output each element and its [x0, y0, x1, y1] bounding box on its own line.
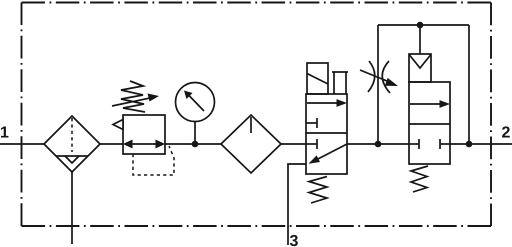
gauge G1 needle [189, 96, 204, 112]
valve V2 body (2/2-way pilot valve) [409, 82, 450, 164]
regulator R1 flow path double arrow [130, 143, 158, 145]
throttle valve D1 arcs [368, 61, 375, 92]
filter F1 drain line [71, 172, 73, 244]
filter F1 separator notch [65, 156, 79, 163]
regulator R1 relief vent triangle [113, 120, 123, 130]
wire lubricator to valve V1 [281, 143, 306, 145]
regulator R1 body [123, 115, 165, 154]
wire bypass top line [378, 24, 469, 26]
filter F1 separator baffle [57, 155, 88, 157]
valve V1 bottom box exhaust path diagonal arrow [314, 144, 347, 161]
valve V1 solenoid coil [307, 63, 328, 94]
port label 1 [1, 126, 8, 137]
lubricator L1 body [221, 115, 281, 173]
regulator R1 pilot line (dashed) [133, 146, 174, 175]
filter F1 (water separator) body [44, 116, 100, 172]
valve V1 body (3/2-way solenoid valve) [306, 94, 347, 174]
node output junction [466, 141, 473, 148]
valve V1 exhaust wire to port 3 [288, 164, 306, 245]
wire pilot stem [419, 25, 421, 54]
wire bypass riser (left) [377, 25, 379, 144]
wire filter to regulator [100, 143, 123, 145]
port label 3 [290, 235, 298, 246]
pressure gauge G1 [176, 83, 215, 122]
node pilot tap junction [417, 22, 424, 29]
filter F1 element (dashed) [71, 118, 73, 152]
regulator R1 spring [121, 81, 145, 112]
regulator R1 adjustment arrow [112, 98, 152, 106]
valve V2 bottom box blocked port T (right) [440, 143, 450, 145]
wire valve V2 to port 2 [450, 143, 512, 145]
lubricator L1 drip tube [250, 117, 252, 133]
wire regulator to lubricator [165, 143, 221, 145]
valve V1 position divider [306, 132, 347, 134]
valve V2 position divider [409, 123, 450, 125]
valve V2 return spring [411, 166, 428, 192]
valve V1 top box blocked port T [306, 122, 317, 124]
node bypass branch junction [375, 141, 382, 148]
node gauge junction [192, 141, 199, 148]
valve V1 manual override [332, 72, 348, 94]
valve V2 pilot actuator box [409, 54, 431, 82]
wire port 1 to filter [0, 143, 44, 145]
wire valve V1 to valve V2 [347, 143, 409, 145]
valve V2 bottom box blocked port T (left) [409, 143, 419, 145]
gauge G1 stem [194, 122, 196, 145]
valve V1 return spring [309, 177, 327, 204]
valve V2 top box flow arrow [410, 103, 441, 105]
wire bypass riser (right) [468, 25, 470, 144]
throttle valve D1 adjustment arrow [360, 70, 391, 83]
valve V1 bottom box blocked port T [306, 143, 317, 145]
port label 2 [502, 126, 510, 137]
valve V1 top box flow arrow [307, 102, 338, 104]
